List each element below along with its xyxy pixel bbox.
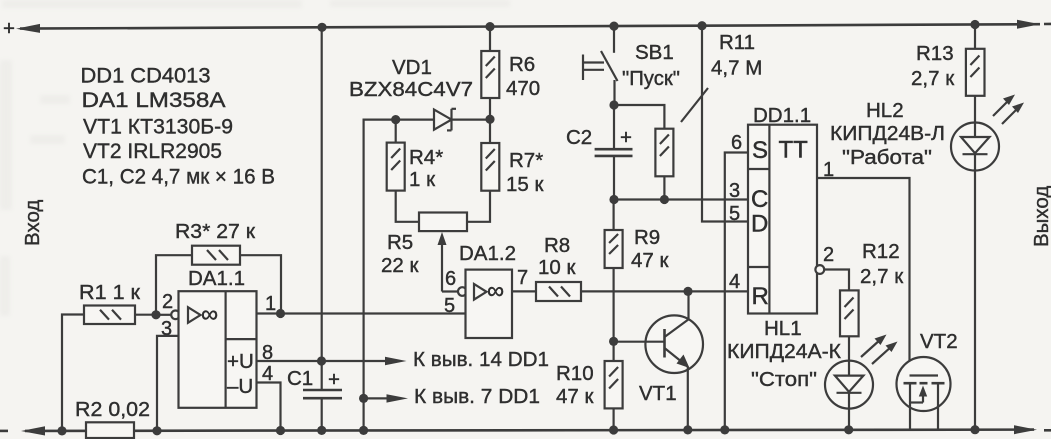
wire R9 bottom to base node <box>612 268 614 361</box>
wire node to pin 2 <box>156 314 172 316</box>
minus terminal mark bottom left <box>0 430 8 433</box>
svg-text:R3* 27 к: R3* 27 к <box>175 220 256 243</box>
resistor R4 <box>387 143 405 191</box>
wire plus rail to R13 <box>974 25 976 49</box>
wire wiper to DA1.2 pin 6 <box>442 290 459 292</box>
svg-text:D: D <box>751 211 768 238</box>
wire node down to R9 <box>612 200 614 231</box>
svg-text:R6: R6 <box>509 53 535 76</box>
svg-text:DA1.1: DA1.1 <box>188 267 245 290</box>
svg-text:4: 4 <box>729 271 740 293</box>
resistor R9 <box>605 230 623 268</box>
node: top rail junction C1 branch <box>317 23 326 32</box>
wire pin 3 down to minus rail <box>157 336 179 431</box>
resistor R11 <box>655 129 673 177</box>
svg-text:R: R <box>752 283 769 310</box>
wire VD1 branch node to K vyv 7 arrow <box>364 397 391 399</box>
node VT1 collector <box>683 287 692 296</box>
svg-text:DD1 CD4013: DD1 CD4013 <box>81 64 211 88</box>
node VD1 branch to rail <box>359 426 368 435</box>
potentiometer R5 wiper arrow <box>438 232 447 245</box>
HL1 emission arrows <box>861 339 881 357</box>
diode VD1 (zener) <box>434 110 452 130</box>
wire R8 to DD1.1 pin 4 R input <box>581 290 748 292</box>
inverting input circle DA1.1 pin 2 <box>171 311 180 320</box>
node R10 rail <box>609 425 618 434</box>
wire R7 bottom to R5 right <box>467 191 490 222</box>
node pin3 to rail <box>152 426 161 435</box>
svg-text:S: S <box>752 137 768 164</box>
inverting input circle DA1.2 pin 6 <box>458 287 467 296</box>
HL2 emission arrows <box>993 99 1010 116</box>
resistor R10 <box>605 361 623 408</box>
svg-text:2: 2 <box>823 244 834 266</box>
wire node to R7 <box>489 119 491 143</box>
node pin8/C1 plus line <box>317 356 326 365</box>
svg-text:6: 6 <box>445 268 456 290</box>
node R1 to rail <box>57 426 66 435</box>
pushbutton SB1 <box>601 51 618 81</box>
svg-text:47 к: 47 к <box>556 385 594 408</box>
svg-text:DA1 LM358A: DA1 LM358A <box>82 88 227 112</box>
svg-text:VT1: VT1 <box>639 382 677 405</box>
svg-text:К выв. 14 DD1: К выв. 14 DD1 <box>413 348 549 371</box>
svg-text:Выход: Выход <box>1030 186 1051 247</box>
svg-text:DD1.1: DD1.1 <box>753 104 811 127</box>
svg-text:3: 3 <box>729 180 740 202</box>
svg-text:BZX84C4V7: BZX84C4V7 <box>349 78 473 101</box>
svg-text:VT1 КТ3130Б-9: VT1 КТ3130Б-9 <box>83 115 233 139</box>
svg-text:R13: R13 <box>916 42 954 65</box>
svg-text:R5: R5 <box>387 231 413 254</box>
wire R12 to HL1 <box>848 336 850 361</box>
node R11 bottom <box>660 195 669 204</box>
svg-text:HL1: HL1 <box>764 317 802 340</box>
svg-text:К выв. 7 DD1: К выв. 7 DD1 <box>414 385 540 408</box>
node R4 top <box>391 115 400 124</box>
svg-text:C1: C1 <box>287 367 313 390</box>
capacitor C2 plates <box>595 148 633 151</box>
node output/R3 <box>276 309 285 318</box>
svg-text:TT: TT <box>779 137 809 164</box>
svg-text:VT2: VT2 <box>920 330 958 353</box>
transistor VT2 MOSFET <box>897 357 951 411</box>
wire SB1 to R11 top <box>614 105 664 129</box>
wire pin 8 to DD1 pin 14 arrow <box>257 360 391 362</box>
VT2 substrate arrowhead <box>919 386 927 397</box>
wire D pin5 from plus rail <box>702 26 748 222</box>
arrow to K vyv 14 DD1 <box>385 357 407 365</box>
svg-text:C: C <box>751 186 768 213</box>
svg-text:5: 5 <box>729 203 740 225</box>
inverted output circle pin 2 <box>815 265 824 274</box>
wire R6 to node <box>489 98 491 119</box>
bottom rail continuation dash <box>1044 429 1051 432</box>
svg-text:∞: ∞ <box>487 278 504 305</box>
node VT1 emitter rail <box>683 425 692 434</box>
op-amp triangle symbol DA1.1 <box>188 307 201 323</box>
svg-text:2,7 к: 2,7 к <box>911 67 955 90</box>
svg-text:470: 470 <box>506 77 540 100</box>
wire R10 to minus rail <box>612 408 614 430</box>
svg-text:+: + <box>620 126 632 149</box>
resistor R7 <box>481 143 499 191</box>
node C2/R9 <box>609 195 618 204</box>
REGION: run LED and output switch <box>830 25 1024 435</box>
REGION: C1 supply branch <box>287 27 342 435</box>
node VT1 base divider <box>609 337 618 346</box>
wire plus rail to R6 <box>489 27 491 51</box>
svg-text:∞: ∞ <box>201 301 218 328</box>
svg-text:"Пуск": "Пуск" <box>622 67 680 90</box>
svg-text:4,7 М: 4,7 М <box>711 57 762 80</box>
wire HL2 to minus rail <box>974 171 976 430</box>
wire R3 right to output node <box>240 255 281 313</box>
svg-text:22 к: 22 к <box>381 254 419 277</box>
parts list text <box>81 64 276 189</box>
node HL1 rail <box>844 425 853 434</box>
svg-text:+: + <box>3 17 15 40</box>
node: top rail junction R13 <box>970 20 979 29</box>
svg-text:VT2 IRLR2905: VT2 IRLR2905 <box>83 139 222 163</box>
potentiometer R5 body <box>419 213 467 232</box>
resistor R6 <box>481 51 499 98</box>
svg-text:R2 0,02: R2 0,02 <box>75 398 150 421</box>
node C1 to rail <box>317 426 326 435</box>
LED HL2 <box>951 123 999 171</box>
wire VT1 collector up to R line <box>687 291 689 320</box>
wire S pin6 to minus rail <box>725 153 748 430</box>
wire pulse node to DD1.1 pin 3 C input <box>614 198 748 200</box>
node VD1 branch / K vyv7 line <box>359 394 368 403</box>
svg-text:7: 7 <box>517 267 528 289</box>
transistor VT1 <box>645 315 703 373</box>
svg-text:2: 2 <box>162 291 173 313</box>
op-amp triangle symbol DA1.2 <box>474 284 487 300</box>
node pin4 to rail <box>276 426 285 435</box>
top rail continuation dash <box>1044 23 1051 26</box>
bottom rail left arrow <box>21 426 45 435</box>
svg-text:R1 1 к: R1 1 к <box>79 281 141 304</box>
node S line to rail <box>720 425 729 434</box>
svg-text:–U: –U <box>227 375 253 398</box>
svg-text:VD1: VD1 <box>392 56 432 79</box>
REGION: zener reference VD1 R4 R6 R7 R5 DA1.2 R8 <box>349 27 748 435</box>
svg-text:R7*: R7* <box>509 149 543 172</box>
wire R1 left branch down to minus rail <box>62 315 84 431</box>
svg-text:6: 6 <box>731 132 742 154</box>
wire pin 4 down to minus rail <box>257 383 281 431</box>
svg-text:1: 1 <box>265 293 276 315</box>
wire from plus rail down to C1 <box>321 27 323 390</box>
wire R4 top lead <box>395 120 397 143</box>
bottom rail wire <box>25 430 1034 431</box>
wire DA1.1 output pin1 to DA1.2 pin5 <box>257 312 466 314</box>
svg-text:1 к: 1 к <box>409 168 436 191</box>
node R6 bottom R7 top <box>485 115 494 124</box>
wire node to R3 left <box>156 255 192 315</box>
svg-text:+U: +U <box>227 350 254 373</box>
arrow to K vyv 7 DD1 <box>387 394 409 402</box>
REGION: input divider and op-amp DA1.1 <box>57 220 549 438</box>
capacitor C1 plates <box>303 389 342 392</box>
svg-text:R8: R8 <box>544 234 570 257</box>
top rail right arrow <box>1017 20 1040 29</box>
resistor R8 <box>536 282 581 301</box>
wire R11 bottom to node <box>663 176 665 199</box>
op-amp DA1.2 box <box>466 270 513 338</box>
svg-text:"Стоп": "Стоп" <box>751 368 817 391</box>
svg-text:Вход: Вход <box>21 200 44 246</box>
node: top rail junction R6 <box>485 22 494 31</box>
svg-text:47 к: 47 к <box>631 249 669 272</box>
resistor R1 <box>84 306 135 325</box>
wire VT1 emitter to minus rail <box>687 367 689 430</box>
node SB1 bottom <box>609 100 618 109</box>
faint scan bleed-through marks <box>0 0 510 316</box>
wire C2 top <box>613 105 615 149</box>
svg-text:SB1: SB1 <box>635 41 674 64</box>
top rail left arrow <box>16 24 40 33</box>
svg-text:15 к: 15 к <box>506 173 544 196</box>
resistor R12 <box>840 290 859 336</box>
svg-text:R11: R11 <box>719 31 755 54</box>
wire C1 to minus rail <box>321 398 323 430</box>
node: top rail junction SB1 <box>609 22 618 31</box>
op-amp DA1.1 box <box>179 291 257 408</box>
svg-text:R12: R12 <box>862 240 900 263</box>
wire VD1 left node down to minus rail <box>364 120 434 431</box>
svg-text:2,7 к: 2,7 к <box>860 265 904 288</box>
svg-text:+: + <box>328 368 340 391</box>
VT1 emitter arrowhead <box>677 355 690 369</box>
svg-text:R10: R10 <box>556 362 594 385</box>
node R1/R3/pin2 <box>151 310 160 319</box>
resistor R3 <box>192 246 240 265</box>
wire R4 bottom to R5 left <box>396 191 419 222</box>
resistor R13 <box>966 49 985 96</box>
REGION: start button, timing cap, VT1 <box>556 26 762 435</box>
svg-text:R4*: R4* <box>409 146 443 169</box>
wire VD1 cathode to R6/R7 node <box>452 118 491 120</box>
svg-text:КИПД24А-К: КИПД24А-К <box>727 340 841 363</box>
wire plus rail to SB1 <box>613 26 615 53</box>
node: top rail junction DD1 D line <box>697 21 706 30</box>
svg-text:HL2: HL2 <box>866 99 904 122</box>
svg-text:5: 5 <box>444 295 455 317</box>
resistor R2 (shunt in minus rail) <box>86 422 134 438</box>
wire C2 bottom to node <box>613 156 615 200</box>
REGION: flip-flop DD1.1 <box>702 26 910 435</box>
svg-text:C1, C2 4,7 мк × 16 В: C1, C2 4,7 мк × 16 В <box>82 165 275 189</box>
svg-text:C2: C2 <box>566 126 592 149</box>
svg-text:10 к: 10 к <box>538 256 576 279</box>
LED HL1 <box>825 361 873 409</box>
wire R13 to HL2 <box>974 96 976 122</box>
svg-text:DA1.2: DA1.2 <box>459 242 516 265</box>
svg-text:КИПД24В-Л: КИПД24В-Л <box>830 122 945 145</box>
node HL2 rail <box>970 425 979 434</box>
wire pin1 output to VT2 gate <box>817 178 910 376</box>
svg-text:"Работа": "Работа" <box>842 146 932 169</box>
wire pin2 to R12 <box>824 270 849 291</box>
flip-flop DD1.1 box <box>748 125 817 314</box>
top rail wire <box>20 24 1040 28</box>
wire DA1.2 output to R8 <box>512 290 536 292</box>
wire R1 to node <box>135 314 160 316</box>
bottom rail right arrow <box>1014 425 1037 434</box>
svg-text:R9: R9 <box>634 226 660 249</box>
